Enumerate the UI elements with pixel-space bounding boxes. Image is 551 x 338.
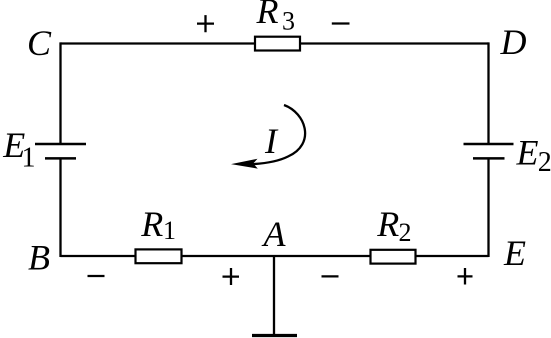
wire right D to E2 bbox=[487, 42, 489, 144]
svg-text:3: 3 bbox=[282, 7, 295, 36]
battery label E2 bbox=[516, 133, 551, 178]
current arrow arc bbox=[251, 105, 305, 164]
resistor label R2 bbox=[376, 204, 411, 247]
plus sign right of R1 bbox=[223, 268, 240, 285]
resistor R3 bbox=[255, 37, 300, 51]
resistor label R3 bbox=[256, 0, 296, 36]
svg-text:R: R bbox=[140, 204, 163, 244]
svg-text:E: E bbox=[503, 233, 526, 273]
plus sign left of R3 bbox=[197, 15, 214, 32]
wire left E1 to B bbox=[59, 159, 61, 258]
svg-text:1: 1 bbox=[163, 216, 176, 245]
resistor R2 bbox=[371, 250, 416, 264]
wire left C to E1 bbox=[59, 42, 61, 144]
battery label E1 bbox=[2, 125, 35, 174]
battery E1 bbox=[35, 144, 86, 158]
wire right E2 to E bbox=[487, 159, 489, 258]
ground at node A bbox=[252, 256, 297, 336]
svg-text:B: B bbox=[28, 238, 50, 278]
resistor label R1 bbox=[140, 204, 176, 245]
resistor R1 bbox=[136, 249, 182, 263]
minus sign right of R3 bbox=[332, 22, 350, 24]
wire top C to D bbox=[61, 42, 489, 44]
svg-text:R: R bbox=[256, 0, 279, 31]
svg-text:C: C bbox=[27, 23, 52, 63]
svg-text:1: 1 bbox=[22, 143, 36, 174]
svg-text:I: I bbox=[264, 121, 279, 161]
battery E2 bbox=[464, 144, 514, 158]
svg-text:A: A bbox=[262, 214, 287, 254]
plus sign right of R2 bbox=[458, 268, 473, 285]
svg-text:2: 2 bbox=[399, 218, 412, 247]
svg-text:2: 2 bbox=[538, 147, 551, 178]
wire bottom B to E bbox=[61, 255, 489, 257]
svg-text:E: E bbox=[516, 133, 539, 173]
minus sign left of R2 bbox=[322, 275, 339, 277]
svg-text:R: R bbox=[376, 204, 399, 244]
minus sign left of R1 bbox=[88, 275, 105, 277]
current arrowhead bbox=[231, 159, 258, 169]
svg-text:D: D bbox=[500, 22, 527, 62]
